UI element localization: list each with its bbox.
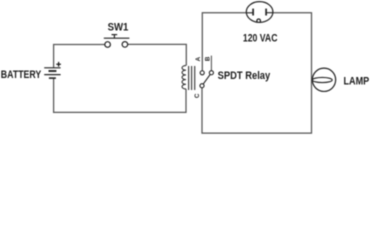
- relay switch arm C to B: [203, 74, 210, 84]
- switch SW1 pushbutton: actuator bar: [104, 37, 130, 39]
- wire right-loop: plug right side to lamp and around bottom to contact C: [202, 13, 312, 133]
- wire right-loop: left side top, down through contact A: [202, 13, 253, 71]
- battery B1: plate 2 short thick: [49, 70, 57, 72]
- relay contact A circle: [200, 71, 204, 75]
- plug left prong lead: [246, 12, 253, 14]
- svg-text:SW1: SW1: [108, 22, 129, 34]
- plug P1 ellipse body: [246, 2, 273, 23]
- lamp filament ellipse: [312, 77, 332, 82]
- svg-text:B: B: [204, 56, 211, 61]
- plug right prong lead: [266, 12, 273, 14]
- relay contact B stub wire: [210, 56, 212, 71]
- plug ground pin (n shape): [257, 19, 261, 23]
- battery B1: plate 4 short thick: [49, 77, 56, 79]
- battery B1: plate 1 long (+): [44, 67, 60, 69]
- switch SW1 pushbutton: actuator stem: [113, 35, 115, 39]
- label LAMP: [344, 75, 370, 87]
- label BATTERY: [1, 69, 42, 81]
- svg-text:BATTERY: BATTERY: [1, 69, 42, 81]
- battery B1: plate 3 long: [44, 74, 60, 76]
- wire left-loop bottom: coil bottom to battery minus: [54, 78, 186, 112]
- label 120 VAC: [243, 33, 278, 45]
- relay core line 1: [188, 66, 190, 90]
- lamp DS1 bulb circle: [312, 68, 335, 91]
- switch SW1 pushbutton: left contact circle: [105, 42, 111, 48]
- label SPDT Relay: [218, 70, 271, 82]
- wire left-loop top: SW1 right contact to coil top: [128, 44, 187, 65]
- relay contact B circle: [209, 71, 213, 75]
- plug right prong bar: [265, 9, 267, 16]
- relay common contact C circle: [200, 84, 204, 88]
- svg-text:LAMP: LAMP: [344, 75, 370, 87]
- svg-text:A: A: [195, 56, 202, 61]
- relay coil L1 (5 bumps): [182, 66, 186, 90]
- relay core line 3: [194, 66, 196, 90]
- wire left-loop top: battery to SW1 left contact: [54, 45, 105, 68]
- relay core line 2: [191, 66, 193, 90]
- plug left prong bar: [252, 9, 254, 16]
- switch SW1 pushbutton: actuator top tick: [112, 34, 118, 36]
- label SW1: [108, 22, 129, 34]
- svg-text:SPDT Relay: SPDT Relay: [218, 70, 271, 82]
- switch SW1 pushbutton: right contact circle: [122, 42, 128, 48]
- battery plus sign: [56, 62, 61, 67]
- svg-text:C: C: [194, 93, 201, 98]
- svg-text:120 VAC: 120 VAC: [243, 33, 278, 45]
